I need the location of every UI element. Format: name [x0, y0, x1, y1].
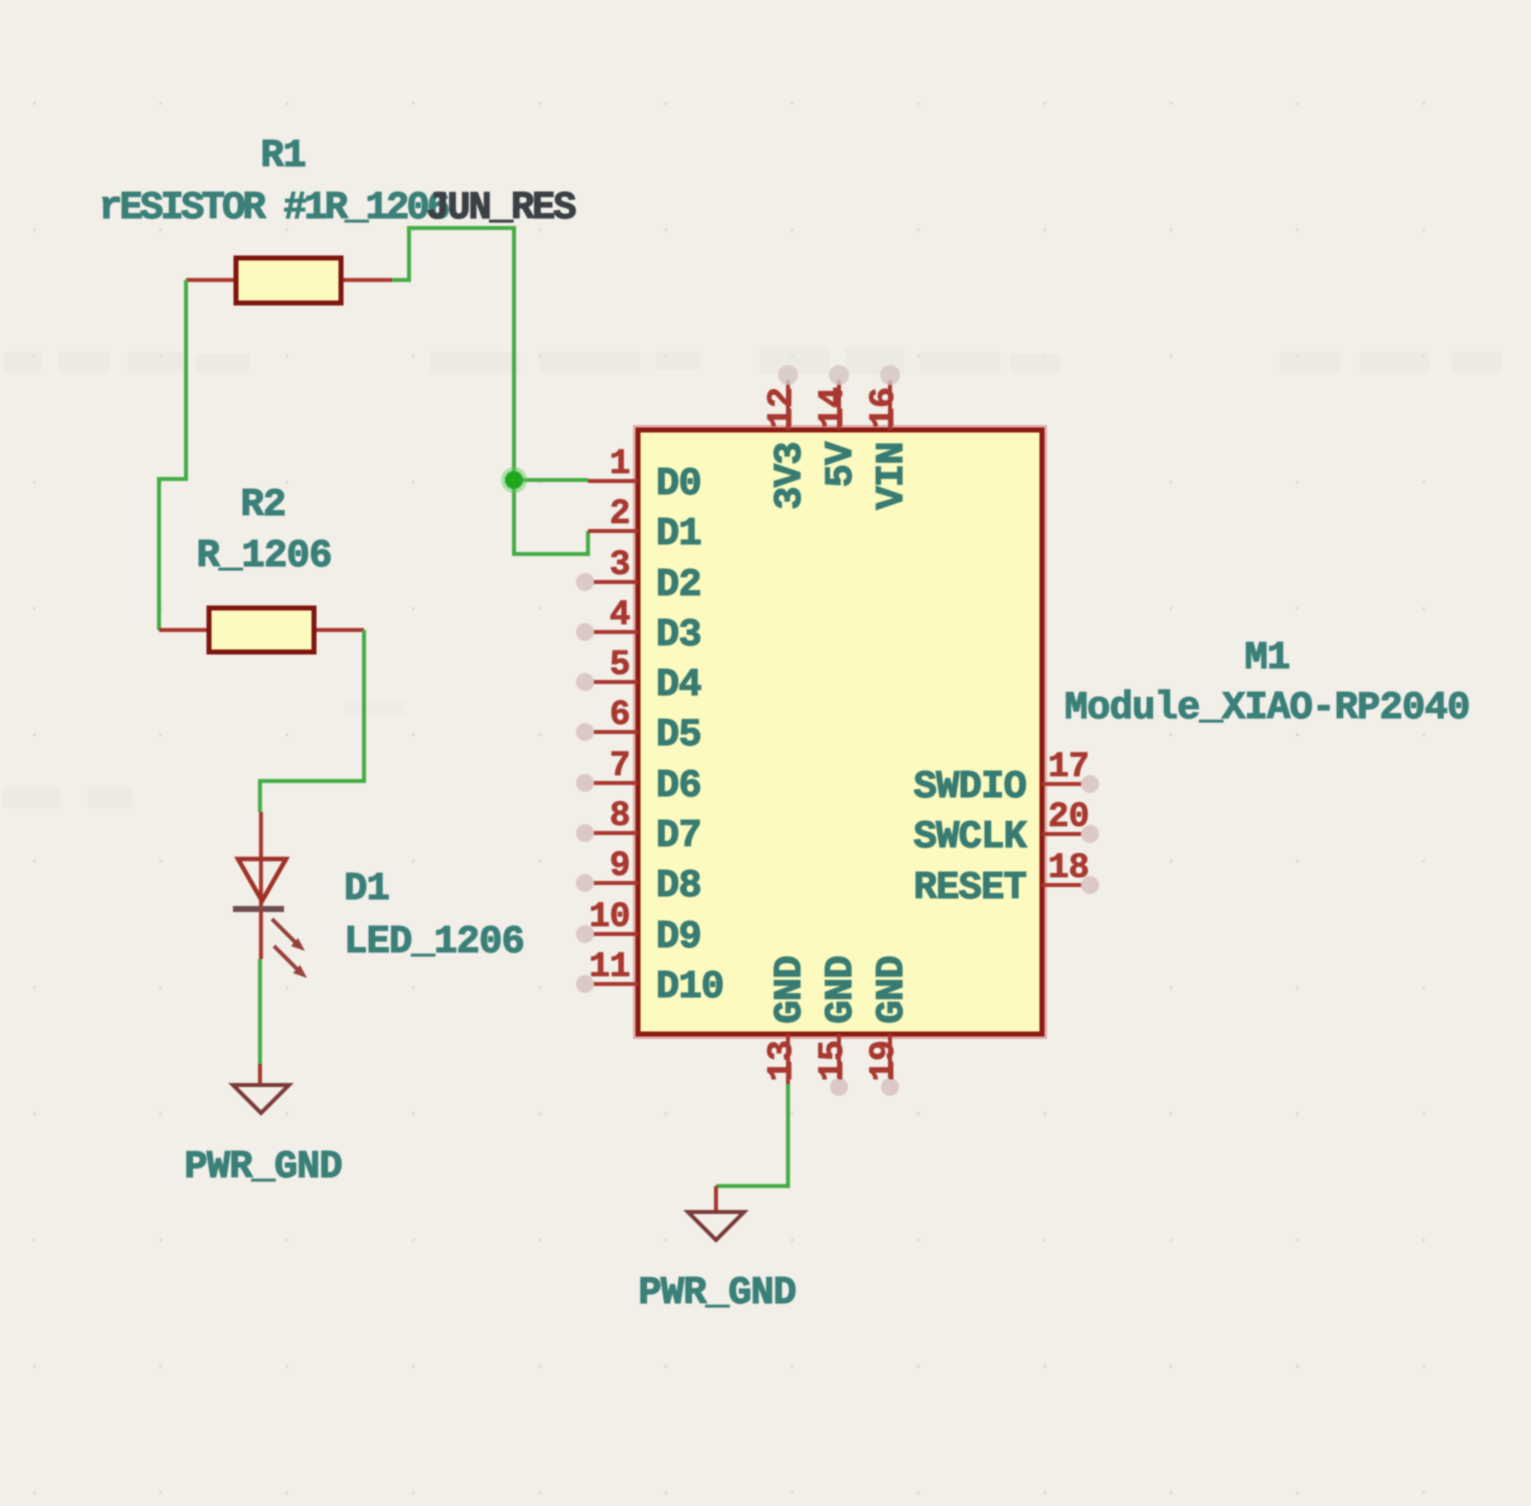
M1 pin 13 (GND), bottom, connected — [762, 956, 812, 1084]
M1 pin 15 (GND) unconnected, bottom — [813, 956, 863, 1096]
wire R1 pin2 to junction and M1 pin2 (net JUN_RES) — [392, 228, 588, 554]
svg-text:7: 7 — [609, 746, 630, 786]
svg-text:16: 16 — [864, 387, 904, 428]
svg-text:2: 2 — [609, 494, 630, 534]
svg-text:GND: GND — [819, 956, 863, 1024]
R2 value label R_1206 — [196, 534, 331, 578]
svg-text:20: 20 — [1048, 797, 1089, 837]
D1 value label LED_1206 — [344, 920, 524, 964]
M1 pin 16 (VIN) unconnected, top — [864, 365, 914, 510]
svg-text:VIN: VIN — [870, 442, 914, 510]
svg-text:9: 9 — [609, 846, 630, 886]
svg-text:GND: GND — [768, 956, 812, 1024]
svg-text:D10: D10 — [656, 965, 724, 1009]
svg-text:4: 4 — [609, 595, 630, 635]
svg-text:SWCLK: SWCLK — [913, 815, 1027, 859]
M1 pin 9 (D8) unconnected — [576, 846, 701, 908]
svg-text:12: 12 — [762, 387, 802, 428]
resistor R1 — [186, 258, 392, 303]
svg-text:D7: D7 — [656, 814, 701, 858]
svg-text:10: 10 — [589, 897, 630, 937]
svg-text:D0: D0 — [656, 462, 701, 506]
svg-text:R_1206: R_1206 — [196, 534, 331, 578]
power symbol PWR_GND (right) — [688, 1186, 744, 1240]
svg-text:11: 11 — [589, 947, 630, 987]
svg-text:R2: R2 — [240, 483, 285, 527]
M1 pin 2 (D1) — [588, 494, 701, 556]
net label JUN_RES — [426, 186, 576, 230]
svg-text:1: 1 — [609, 444, 630, 484]
wire R1 pin1 to R2 pin1 — [159, 280, 186, 630]
svg-text:14: 14 — [813, 387, 853, 428]
M1 pin 12 (3V3) unconnected, top — [762, 365, 812, 510]
module M1 Module_XIAO-RP2040 body — [638, 430, 1042, 1034]
M1 pin 11 (D10) unconnected — [576, 947, 724, 1009]
svg-text:SWDIO: SWDIO — [913, 765, 1026, 809]
M1 pin 4 (D3) unconnected — [576, 595, 701, 657]
svg-text:RESET: RESET — [913, 866, 1026, 910]
svg-text:19: 19 — [864, 1040, 904, 1081]
M1 pin 7 (D6) unconnected — [576, 746, 701, 808]
M1 pin 1 (D0) — [588, 444, 701, 506]
svg-text:D1: D1 — [656, 512, 701, 556]
M1 pin 6 (D5) unconnected — [576, 695, 701, 757]
svg-text:PWR_GND: PWR_GND — [638, 1271, 796, 1315]
svg-text:D1: D1 — [344, 867, 389, 911]
svg-text:D5: D5 — [656, 713, 701, 757]
M1 reference label — [1244, 636, 1289, 680]
svg-text:GND: GND — [870, 956, 914, 1024]
M1 pin 20 (SWCLK) unconnected, right — [913, 797, 1099, 859]
resistor R2 — [159, 608, 364, 652]
svg-text:LED_1206: LED_1206 — [344, 920, 524, 964]
svg-text:R1: R1 — [260, 134, 305, 178]
wire junction to M1 pin 1 — [514, 478, 588, 482]
M1 pin 5 (D4) unconnected — [576, 645, 702, 707]
wire R2 pin2 to D1 anode — [260, 630, 364, 812]
power symbol PWR_GND (left) — [233, 1064, 289, 1113]
svg-text:5V: 5V — [819, 441, 863, 488]
svg-text:6: 6 — [609, 695, 630, 735]
svg-text:rESISTOR #1R_1206: rESISTOR #1R_1206 — [99, 186, 449, 230]
svg-text:JUN_RES: JUN_RES — [426, 186, 576, 230]
R2 reference label — [240, 483, 285, 527]
M1 pin 19 (GND) unconnected, bottom — [864, 956, 914, 1096]
svg-text:D6: D6 — [656, 764, 701, 808]
PWR_GND label (left) — [184, 1145, 342, 1189]
LED D1 — [233, 812, 307, 978]
svg-text:8: 8 — [609, 796, 630, 836]
junction on net JUN_RES — [501, 467, 527, 493]
M1 pin 10 (D9) unconnected — [576, 897, 701, 959]
svg-text:PWR_GND: PWR_GND — [184, 1145, 342, 1189]
svg-text:17: 17 — [1048, 747, 1089, 787]
svg-text:18: 18 — [1048, 848, 1089, 888]
M1 pin 8 (D7) unconnected — [576, 796, 701, 858]
PWR_GND label (right) — [638, 1271, 796, 1315]
svg-text:D8: D8 — [656, 864, 701, 908]
M1 pin 18 (RESET) unconnected, right — [913, 848, 1099, 910]
svg-text:3V3: 3V3 — [768, 442, 812, 510]
svg-text:D2: D2 — [656, 563, 701, 607]
R1 reference label — [260, 134, 305, 178]
M1 pin 3 (D2) unconnected — [576, 545, 701, 607]
svg-text:Module_XIAO-RP2040: Module_XIAO-RP2040 — [1064, 686, 1469, 730]
svg-text:15: 15 — [813, 1040, 853, 1081]
svg-text:3: 3 — [609, 545, 630, 585]
M1 value label Module_XIAO-RP2040 — [1064, 686, 1469, 730]
R1 value label rESISTOR #1R_1206 — [99, 186, 449, 230]
svg-text:D4: D4 — [656, 663, 702, 707]
M1 pin 17 (SWDIO) unconnected, right — [913, 747, 1099, 809]
D1 reference label — [344, 867, 389, 911]
svg-text:5: 5 — [609, 645, 630, 685]
M1 pin 14 (5V) unconnected, top — [813, 365, 863, 488]
svg-text:D9: D9 — [656, 915, 701, 959]
wire D1 cathode to PWR_GND — [258, 959, 262, 1064]
svg-text:D3: D3 — [656, 613, 701, 657]
wire M1 pin13 GND to PWR_GND — [716, 1084, 788, 1186]
svg-text:13: 13 — [762, 1040, 802, 1081]
svg-text:M1: M1 — [1244, 636, 1289, 680]
